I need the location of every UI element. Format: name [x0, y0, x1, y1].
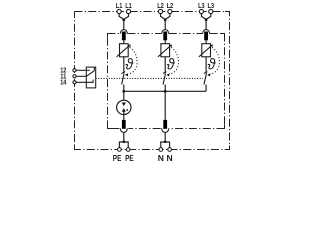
wire L3 terminals to junction — [201, 13, 210, 19]
svg-text:L1: L1 — [116, 1, 123, 10]
terminal N b — [168, 148, 172, 152]
svg-text:14: 14 — [60, 78, 66, 87]
enclosure outer border — [75, 12, 230, 150]
svg-text:ϑ: ϑ — [167, 57, 175, 74]
varistor L3 arrowhead — [211, 44, 213, 47]
node bus-L1 — [122, 90, 125, 93]
wire switch to bus L3 — [205, 85, 207, 92]
thermal arc arrowhead L2 — [166, 73, 169, 76]
node bus-N — [164, 90, 167, 93]
wire 11 to contact — [77, 75, 87, 77]
switch blade L2 — [163, 74, 165, 85]
wire switch to bus L2 — [164, 85, 166, 92]
thermal arc L2 — [170, 47, 179, 74]
varistor L2 body — [161, 44, 170, 57]
svg-text:PE: PE — [113, 153, 122, 163]
disconnector pin PE — [122, 120, 126, 129]
socket contact L3 (bell) — [203, 30, 210, 34]
wire switch to bus L1 — [123, 85, 125, 92]
node PE split — [122, 140, 125, 143]
bus wire N — [124, 90, 206, 92]
wire spark gap to PE pin — [123, 112, 125, 120]
varistor L3 body — [202, 44, 211, 57]
disconnector pin L2 — [163, 32, 167, 41]
terminal L1 b — [126, 9, 130, 13]
spark gap bottom electrode — [122, 108, 126, 112]
terminal 11 — [73, 75, 76, 78]
inner border corner marks — [108, 34, 225, 129]
thermal arc arrowhead L3 — [207, 73, 210, 76]
node N split — [164, 140, 167, 143]
svg-text:N: N — [167, 153, 173, 163]
wire varistor to switch L1 — [123, 57, 125, 74]
socket contact L1 (bell) — [120, 30, 127, 34]
module inner border top edge — [108, 33, 225, 35]
svg-text:L1: L1 — [125, 1, 132, 10]
remote contact FM box — [86, 67, 95, 88]
terminal 14 — [73, 81, 76, 84]
wire varistor to switch L3 — [205, 57, 207, 74]
module inner border right edge — [224, 34, 226, 129]
wire 12 to contact — [77, 69, 90, 71]
wire L1 terminals to junction — [119, 13, 128, 19]
varistor L1 diagonal — [117, 45, 130, 57]
thermal arc arrowhead L1 — [125, 73, 128, 76]
module inner border bottom edge — [108, 128, 225, 130]
disconnector pin L1 — [122, 32, 126, 41]
module inner border left edge — [107, 34, 109, 129]
wire pin to varistor L2 — [164, 40, 166, 43]
switch blade L3 — [204, 74, 206, 85]
svg-text:ϑ: ϑ — [208, 57, 216, 74]
terminal N a — [159, 148, 163, 152]
node L1 junction — [122, 19, 125, 22]
varistor L1 arrowhead — [128, 44, 130, 47]
terminal L3 a — [199, 9, 203, 13]
wire pin to varistor L1 — [123, 40, 125, 43]
varistor L1 body — [120, 44, 129, 57]
wire L2 terminals to junction — [161, 13, 170, 19]
wire PE socket down — [123, 132, 125, 141]
wire N split arms — [161, 142, 170, 148]
node L3 junction — [205, 19, 208, 22]
terminal L2 b — [168, 9, 172, 13]
svg-text:L3: L3 — [208, 1, 215, 10]
disconnector pin L3 — [204, 32, 208, 41]
svg-text:L2: L2 — [167, 1, 174, 10]
varistor L2 diagonal — [158, 45, 171, 57]
terminal L3 b — [209, 9, 213, 13]
wire L3 down to socket — [205, 20, 207, 30]
socket contact N (bell) — [162, 128, 169, 132]
wire L1 down to socket — [123, 20, 125, 30]
svg-text:PE: PE — [125, 153, 134, 163]
switch contact tick L3 — [204, 72, 208, 74]
svg-text:ϑ: ϑ — [125, 57, 133, 74]
wire pin to varistor L3 — [205, 40, 207, 43]
svg-text:L3: L3 — [198, 1, 205, 10]
disconnector pin N — [163, 120, 167, 129]
spark gap trigger dot — [126, 109, 128, 111]
terminal L2 a — [158, 9, 162, 13]
varistor L3 diagonal — [199, 45, 212, 57]
wire bus to spark gap — [123, 91, 125, 102]
spark gap N-PE — [117, 100, 131, 114]
wire 14 to contact — [77, 80, 94, 83]
terminal PE b — [126, 148, 130, 152]
switch contact tick L2 — [163, 72, 167, 74]
node L2 junction — [164, 19, 167, 22]
varistor L2 arrowhead — [170, 44, 172, 47]
actuation dotted line — [96, 77, 203, 79]
wire varistor to switch L2 — [164, 57, 166, 74]
terminal 12 — [73, 69, 76, 72]
contact lever — [86, 67, 94, 76]
wire L2 down to socket — [164, 20, 166, 30]
wire bus to N pin — [164, 91, 166, 120]
switch contact tick L1 — [122, 72, 126, 74]
svg-text:N: N — [158, 153, 164, 163]
terminal L1 a — [117, 9, 121, 13]
socket contact PE (bell) — [120, 128, 127, 132]
switch blade L1 — [122, 74, 124, 85]
svg-text:L2: L2 — [157, 1, 164, 10]
thermal arc L3 — [211, 47, 220, 74]
thermal arc L1 — [128, 47, 137, 74]
terminal PE a — [118, 148, 122, 152]
spark gap top electrode — [122, 103, 126, 107]
socket contact L2 (bell) — [162, 30, 169, 34]
border corner marks — [75, 12, 230, 150]
wire PE split arms — [119, 142, 128, 148]
wire N socket down — [164, 132, 166, 141]
